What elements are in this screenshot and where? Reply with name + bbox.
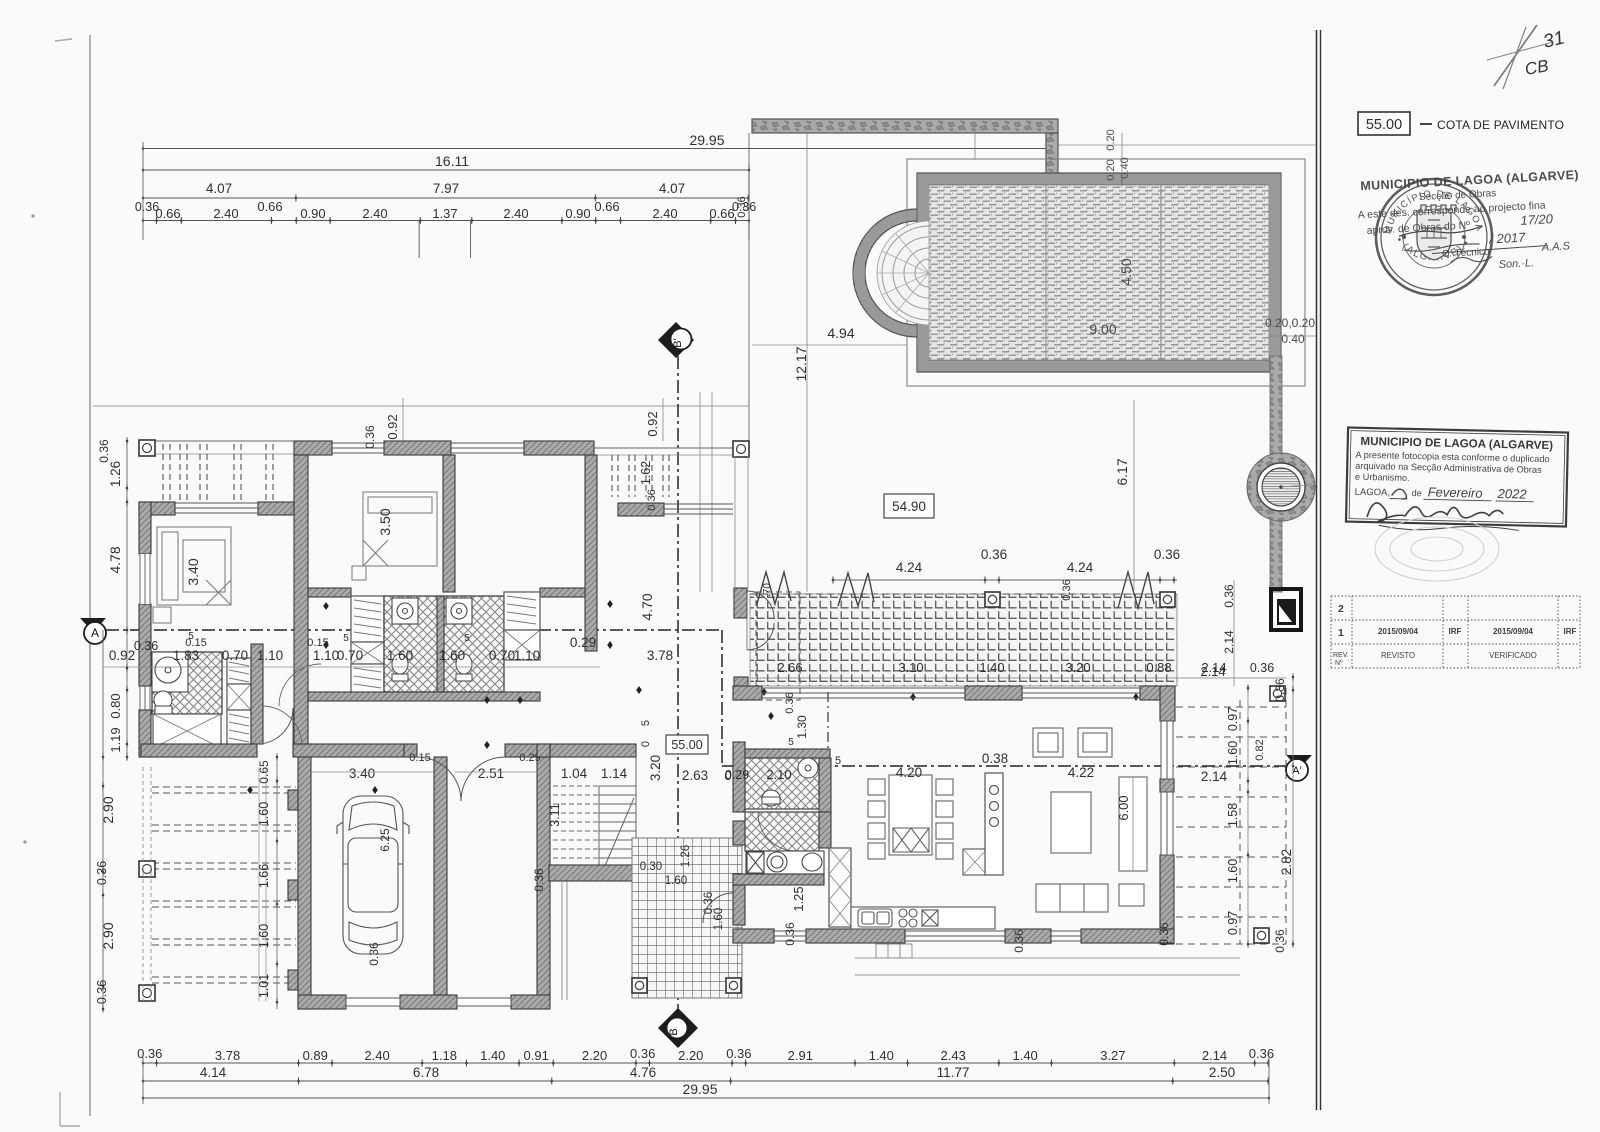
svg-text:2015/09/04: 2015/09/04 bbox=[1378, 627, 1419, 636]
svg-text:0.70: 0.70 bbox=[489, 648, 515, 663]
svg-text:5: 5 bbox=[188, 631, 194, 642]
svg-text:2.40: 2.40 bbox=[364, 1048, 389, 1063]
south patio lines bbox=[855, 957, 1240, 959]
svg-text:4.20: 4.20 bbox=[896, 765, 922, 780]
dim chain top row2: 16.11 bbox=[143, 169, 749, 171]
wall segment (251,644,12x100) bbox=[251, 644, 263, 744]
svg-text:4.94: 4.94 bbox=[827, 325, 854, 341]
svg-text:0.91: 0.91 bbox=[524, 1048, 549, 1063]
sofa bbox=[1036, 884, 1108, 912]
label 55.00 boxed (plan) bbox=[666, 735, 708, 754]
svg-text:3.20: 3.20 bbox=[648, 755, 663, 781]
wall segment (550,744,86x13) bbox=[550, 744, 636, 757]
svg-text:0.36: 0.36 bbox=[1061, 579, 1073, 600]
wall segment (540,588,45x9) bbox=[540, 588, 585, 597]
wall segment (298,757,13x252) bbox=[298, 757, 311, 1009]
svg-text:0.36: 0.36 bbox=[736, 196, 748, 217]
svg-text:1.10: 1.10 bbox=[257, 648, 283, 663]
wall segment (258,502,36x13) bbox=[258, 502, 294, 515]
carport left edge lines bbox=[142, 767, 144, 1001]
label 54.90 (boxed) bbox=[884, 494, 934, 518]
svg-text:VERIFICADO: VERIFICADO bbox=[1489, 651, 1537, 660]
svg-text:1.62: 1.62 bbox=[639, 461, 653, 485]
bottom dim row 2 (totals) bbox=[143, 1080, 1269, 1082]
scan mark top-left bbox=[55, 39, 72, 41]
svg-text:2.90: 2.90 bbox=[100, 796, 116, 823]
svg-text:1.60: 1.60 bbox=[713, 908, 725, 930]
corridor door arc bbox=[257, 708, 293, 744]
svg-text:REVISTO: REVISTO bbox=[1381, 651, 1415, 660]
wardrobe left (bed2) bbox=[351, 596, 384, 698]
wardrobe right (bed3) bbox=[504, 592, 540, 660]
round planter table bbox=[1257, 463, 1305, 511]
north wall window bed2 bbox=[332, 442, 384, 444]
svg-text:2.43: 2.43 bbox=[941, 1048, 966, 1063]
stair treads bbox=[553, 757, 636, 868]
svg-text:5: 5 bbox=[788, 737, 794, 748]
north wall window bed3 bbox=[451, 442, 524, 444]
mid dim line bbox=[103, 666, 600, 668]
svg-text:0.15: 0.15 bbox=[307, 637, 328, 649]
wall segment (585,455,12x196) bbox=[585, 455, 597, 651]
bed1 top window bbox=[175, 502, 258, 504]
wall segment (288,970,10x20) bbox=[288, 970, 298, 990]
site boundary vertical right of pool bbox=[748, 133, 750, 441]
svg-text:5: 5 bbox=[640, 720, 652, 726]
section marker A' (right) bbox=[1286, 755, 1312, 781]
svg-text:2.20: 2.20 bbox=[678, 1048, 703, 1063]
svg-text:0.97: 0.97 bbox=[1226, 911, 1240, 935]
svg-text:4.22: 4.22 bbox=[1068, 765, 1094, 780]
svg-text:COTA DE PAVIMENTO: COTA DE PAVIMENTO bbox=[1437, 118, 1564, 132]
svg-text:0.65: 0.65 bbox=[257, 760, 271, 784]
svg-text:3.40: 3.40 bbox=[349, 766, 375, 781]
svg-text:0.36: 0.36 bbox=[981, 547, 1007, 562]
svg-text:2015/09/04: 2015/09/04 bbox=[1493, 627, 1534, 636]
sheet right border line bbox=[1316, 30, 1318, 1110]
legend: 55.00 cota box bbox=[1358, 112, 1410, 135]
svg-text:3.40: 3.40 bbox=[185, 558, 201, 585]
svg-text:4.07: 4.07 bbox=[206, 181, 232, 196]
svg-text:1.83: 1.83 bbox=[173, 648, 199, 663]
wall segment (308,588,43x9) bbox=[308, 588, 351, 597]
laundry counter bbox=[746, 851, 824, 874]
wall segment (618,503,46x13) bbox=[618, 503, 664, 516]
svg-text:0.90: 0.90 bbox=[565, 206, 590, 221]
svg-text:11.77: 11.77 bbox=[937, 1065, 970, 1080]
porch steps vertical lines bbox=[561, 881, 563, 1000]
svg-text:0.36: 0.36 bbox=[95, 980, 109, 1004]
svg-text:4.76: 4.76 bbox=[630, 1065, 656, 1080]
carport post south bbox=[139, 985, 155, 1001]
pool lane line 2 bbox=[1160, 185, 1162, 360]
svg-text:A.A.S: A.A.S bbox=[1541, 240, 1571, 254]
svg-text:9.00: 9.00 bbox=[1089, 321, 1116, 337]
living south windows bbox=[774, 930, 806, 932]
legend dash bbox=[1420, 123, 1432, 125]
faint circular stamp residue bbox=[1375, 517, 1499, 581]
south patio steps bbox=[876, 944, 912, 958]
svg-text:0.36: 0.36 bbox=[532, 868, 546, 892]
bath2 door arc bbox=[758, 813, 796, 851]
svg-text:0.36: 0.36 bbox=[630, 1046, 655, 1061]
section line A-A horizontal dash-dot (left wing) bbox=[106, 629, 722, 631]
overlapping secretary stamp text bbox=[1356, 168, 1584, 279]
wall segment (965,686,57x14) bbox=[965, 686, 1022, 700]
svg-text:3.78: 3.78 bbox=[647, 648, 673, 663]
pool rim (hatched) bbox=[917, 173, 1281, 372]
svg-text:0.36: 0.36 bbox=[363, 425, 377, 449]
side table bbox=[1119, 884, 1144, 906]
pergola NW corner post bbox=[139, 440, 155, 456]
pool roman steps bbox=[915, 259, 929, 287]
porch post SE bbox=[726, 978, 741, 993]
top boundary line (site) bbox=[93, 405, 749, 407]
bathroom sinks bbox=[392, 598, 472, 624]
wall segment (733,742,12x70) bbox=[733, 742, 745, 812]
living armchairs bbox=[1033, 728, 1112, 757]
svg-text:2.14: 2.14 bbox=[1201, 769, 1228, 784]
svg-text:5: 5 bbox=[464, 633, 470, 644]
svg-text:0.20: 0.20 bbox=[1105, 129, 1117, 150]
svg-text:1.60: 1.60 bbox=[257, 802, 271, 826]
svg-text:/ 2017: / 2017 bbox=[1488, 230, 1527, 247]
svg-text:0.36: 0.36 bbox=[1273, 929, 1287, 953]
terrace post 1 bbox=[985, 592, 1000, 607]
svg-text:54.90: 54.90 bbox=[892, 499, 926, 514]
section line A-A jog vertical bbox=[721, 630, 723, 766]
svg-text:0.36: 0.36 bbox=[646, 489, 658, 510]
section line B-B vertical dash-dot bbox=[677, 356, 679, 1012]
wall segment (733,929,41x14) bbox=[733, 929, 774, 943]
svg-text:0.40: 0.40 bbox=[1281, 332, 1305, 346]
svg-text:3.11: 3.11 bbox=[548, 803, 562, 826]
svg-text:1.60: 1.60 bbox=[257, 924, 271, 948]
round municipal stamp bbox=[1376, 179, 1492, 295]
wall segment (308,692,232x9) bbox=[308, 692, 540, 701]
svg-text:0.36: 0.36 bbox=[1249, 1046, 1274, 1061]
svg-text:0.66: 0.66 bbox=[257, 199, 282, 214]
svg-text:2.40: 2.40 bbox=[362, 206, 387, 221]
garage entry door arcs bbox=[417, 757, 505, 801]
wall segment (806,929,99x14) bbox=[806, 929, 905, 943]
svg-text:1.58: 1.58 bbox=[1226, 803, 1240, 827]
archive copy stamp (rect) bbox=[1346, 428, 1568, 534]
svg-text:4.24: 4.24 bbox=[896, 560, 923, 575]
wall segment (434,757,13x241) bbox=[434, 757, 447, 998]
guest wc floor bbox=[745, 758, 819, 809]
wall segment (443,455,12x137) bbox=[443, 455, 455, 592]
wall segment (139,710,12x47) bbox=[139, 710, 151, 757]
svg-text:1.60: 1.60 bbox=[1226, 859, 1240, 883]
wall segment (819,812,12x36) bbox=[819, 812, 831, 848]
svg-text:2.91: 2.91 bbox=[788, 1048, 813, 1063]
right dim chain rot labels bbox=[1247, 688, 1249, 944]
svg-text:2.51: 2.51 bbox=[478, 766, 504, 781]
svg-text:0.90: 0.90 bbox=[300, 206, 325, 221]
svg-text:1.60: 1.60 bbox=[439, 648, 465, 663]
svg-text:0.20,0.20: 0.20,0.20 bbox=[1265, 316, 1315, 330]
svg-text:4.70: 4.70 bbox=[639, 593, 655, 620]
wall segment (141,744,116x13) bbox=[141, 744, 257, 757]
bed1 furniture bbox=[153, 527, 231, 623]
terrace zigzag mark east bbox=[1118, 572, 1154, 608]
bottom dim row 3 (29.95) bbox=[143, 1097, 1269, 1099]
svg-text:0.20: 0.20 bbox=[1105, 159, 1117, 180]
svg-text:2: 2 bbox=[1338, 603, 1344, 615]
svg-text:2.82: 2.82 bbox=[1279, 849, 1294, 875]
svg-text:1.10: 1.10 bbox=[313, 648, 339, 663]
section marker B' (top) bbox=[658, 322, 694, 358]
svg-text:2.40: 2.40 bbox=[652, 206, 677, 221]
svg-text:3.20: 3.20 bbox=[1065, 660, 1090, 675]
pergola NW strip top edge bbox=[139, 440, 294, 442]
svg-text:1.04: 1.04 bbox=[561, 766, 588, 781]
svg-text:2.10: 2.10 bbox=[766, 767, 791, 782]
kitchen prep table bbox=[963, 849, 987, 875]
wall segment (819,758,12x54) bbox=[819, 758, 831, 812]
section line A-A horizontal dash-dot (right wing) bbox=[722, 765, 1300, 767]
east pergola post SE bbox=[1254, 928, 1269, 943]
terrace post 2 bbox=[1160, 592, 1175, 607]
section marker B (bottom) bbox=[658, 1008, 698, 1048]
wall segment (745,749,85x9) bbox=[745, 749, 830, 758]
bathroom toilets bbox=[392, 654, 472, 681]
wall segment (384,441,67x14) bbox=[384, 441, 451, 455]
svg-text:0.29: 0.29 bbox=[570, 635, 596, 650]
svg-text:0.70: 0.70 bbox=[222, 648, 248, 663]
pool stone wall vertical leg bbox=[1046, 133, 1058, 185]
svg-text:2.40: 2.40 bbox=[503, 206, 528, 221]
svg-text:29.95: 29.95 bbox=[689, 132, 724, 148]
svg-text:0.80: 0.80 bbox=[108, 693, 123, 718]
garage doors (south) bbox=[346, 998, 511, 1006]
wall segment (1081,929,93x14) bbox=[1081, 929, 1174, 943]
svg-text:0.66: 0.66 bbox=[594, 199, 619, 214]
svg-text:17/20: 17/20 bbox=[1520, 211, 1554, 228]
svg-text:0.29: 0.29 bbox=[725, 768, 749, 782]
svg-text:7.97: 7.97 bbox=[433, 181, 459, 196]
hall thin boundary line bbox=[734, 456, 736, 588]
svg-text:0.36: 0.36 bbox=[367, 942, 381, 966]
svg-text:0.66: 0.66 bbox=[155, 206, 180, 221]
bathroom 1+2 tiled floor bbox=[384, 596, 504, 692]
svg-text:1.60: 1.60 bbox=[665, 875, 687, 887]
svg-text:0.38: 0.38 bbox=[982, 751, 1008, 766]
svg-text:1.18: 1.18 bbox=[432, 1048, 457, 1063]
svg-text:6.78: 6.78 bbox=[413, 1065, 439, 1080]
svg-text:LAGOA,: LAGOA, bbox=[1355, 487, 1391, 499]
wall segment (294,455,14x302) bbox=[294, 455, 308, 757]
svg-text:1.40: 1.40 bbox=[1012, 1048, 1037, 1063]
garden walk lines to house bbox=[699, 392, 701, 592]
wall segment (1160,779,14x13) bbox=[1160, 779, 1174, 792]
terrace dim line bbox=[833, 579, 1177, 581]
svg-text:CB: CB bbox=[1523, 56, 1550, 79]
wall segment (511,995,39x14) bbox=[511, 995, 550, 1009]
svg-text:1.14: 1.14 bbox=[601, 766, 628, 781]
svg-text:6.25: 6.25 bbox=[378, 828, 392, 852]
svg-text:1.19: 1.19 bbox=[108, 727, 123, 752]
svg-text:0.92: 0.92 bbox=[385, 414, 400, 439]
svg-text:2.40: 2.40 bbox=[213, 206, 238, 221]
wall segment (1005,929,46x14) bbox=[1005, 929, 1051, 943]
wall segment (404,744,13x13) bbox=[404, 744, 417, 757]
svg-text:55.00: 55.00 bbox=[671, 738, 702, 752]
living north windows bbox=[762, 687, 965, 689]
car bbox=[337, 796, 409, 954]
wall segment (298,995,48x14) bbox=[298, 995, 346, 1009]
svg-text:0.88: 0.88 bbox=[1146, 660, 1171, 675]
wall segment (294,441,38x14) bbox=[294, 441, 332, 455]
scan mark left dot 2 bbox=[23, 840, 26, 843]
terrace zigzag mark west bbox=[757, 572, 791, 604]
svg-text:6.17: 6.17 bbox=[1114, 458, 1130, 485]
wall segment (505,744,44x13) bbox=[505, 744, 549, 757]
kitchen counter bbox=[851, 907, 995, 929]
wall segment (734,588,13x30) bbox=[734, 588, 747, 618]
hall door arc to porch bbox=[703, 893, 733, 923]
svg-text:2.14: 2.14 bbox=[1202, 1048, 1227, 1063]
svg-text:0.40: 0.40 bbox=[1119, 157, 1131, 178]
round planter stone surround bbox=[1247, 453, 1315, 521]
svg-text:6.00: 6.00 bbox=[1116, 795, 1131, 820]
dim terminal verticals top bbox=[142, 142, 144, 240]
svg-text:2.90: 2.90 bbox=[100, 922, 116, 949]
svg-text:IRF: IRF bbox=[1449, 627, 1462, 636]
svg-text:1.40: 1.40 bbox=[979, 660, 1004, 675]
svg-text:1.01: 1.01 bbox=[257, 974, 271, 998]
pool water (brick hatch) bbox=[929, 185, 1269, 360]
svg-text:B′: B′ bbox=[672, 338, 684, 347]
garden path (stone) below pool bbox=[1270, 356, 1282, 592]
svg-text:55.00: 55.00 bbox=[1366, 117, 1402, 133]
svg-text:REV.: REV. bbox=[1333, 652, 1349, 659]
wall segment (139,502,12x52) bbox=[139, 502, 151, 554]
dim chain top row4: small dims bbox=[143, 220, 749, 222]
svg-text:3.78: 3.78 bbox=[215, 1048, 240, 1063]
east pergola post NE bbox=[1270, 686, 1285, 701]
hall double door arcs bbox=[747, 591, 774, 650]
svg-text:3.10: 3.10 bbox=[898, 660, 923, 675]
bottom left terminal bbox=[142, 1057, 144, 1104]
pool apse (arched end) rim bbox=[853, 209, 917, 337]
svg-text:1.26: 1.26 bbox=[680, 845, 692, 867]
svg-text:1.40: 1.40 bbox=[869, 1048, 894, 1063]
svg-text:2.20: 2.20 bbox=[582, 1048, 607, 1063]
corridor door arcs near bath bbox=[262, 706, 302, 746]
svg-text:3.50: 3.50 bbox=[377, 508, 393, 535]
wall segment (1140,686,35x14) bbox=[1140, 686, 1175, 700]
svg-text:0.30: 0.30 bbox=[640, 861, 662, 873]
svg-text:0.36: 0.36 bbox=[726, 1046, 751, 1061]
svg-text:5: 5 bbox=[343, 633, 349, 644]
wall segment (733,821,12x24) bbox=[733, 821, 745, 845]
revision table bbox=[1331, 596, 1580, 668]
svg-text:0.36: 0.36 bbox=[1154, 547, 1180, 562]
svg-text:2.63: 2.63 bbox=[682, 768, 708, 783]
entry porch tiled floor bbox=[632, 838, 742, 998]
carport dim chain (rot) bbox=[276, 757, 278, 1009]
wall segment (1160,855,14x89) bbox=[1160, 855, 1174, 944]
svg-text:0.70: 0.70 bbox=[337, 648, 363, 663]
wall segment (400,995,57x14) bbox=[400, 995, 457, 1009]
svg-text:1.60: 1.60 bbox=[387, 648, 413, 663]
svg-text:29.95: 29.95 bbox=[682, 1081, 717, 1097]
svg-text:de: de bbox=[1412, 488, 1422, 498]
svg-text:0.36: 0.36 bbox=[95, 861, 109, 885]
kitchen island bbox=[985, 773, 1003, 875]
pergola NW beams (dashed) bbox=[162, 444, 164, 502]
bed2 furniture bbox=[352, 492, 437, 580]
wall segment (288,790,10x20) bbox=[288, 790, 298, 810]
ensuite shower (X box) bbox=[153, 714, 221, 748]
covered porch dashed (NE of hall) bbox=[756, 592, 800, 700]
west wall window bbox=[139, 686, 141, 710]
east pergola dashed border bbox=[1239, 700, 1241, 944]
svg-text:4.50: 4.50 bbox=[1118, 258, 1134, 285]
sideboard bbox=[1119, 777, 1147, 871]
pool deck outline bbox=[907, 159, 1305, 386]
left vertical dim chain lower bbox=[102, 630, 104, 1009]
svg-text:1.60: 1.60 bbox=[1226, 741, 1240, 765]
pergola NE corner post bbox=[733, 441, 749, 457]
garage inner dim line bbox=[311, 771, 434, 773]
ensuite sink bbox=[152, 652, 188, 692]
svg-text:2.14: 2.14 bbox=[1200, 664, 1225, 679]
svg-text:4.24: 4.24 bbox=[1067, 560, 1094, 575]
wall segment (139,604,12x82) bbox=[139, 604, 151, 686]
svg-text:.70: .70 bbox=[762, 583, 773, 597]
ensuite closet column bbox=[227, 658, 251, 748]
svg-text:16.11: 16.11 bbox=[435, 153, 469, 169]
svg-text:0.36: 0.36 bbox=[1250, 661, 1274, 675]
carport post mid bbox=[139, 861, 155, 877]
dim chain top row1: 29.95 bbox=[143, 148, 1048, 150]
svg-text:Nº: Nº bbox=[1335, 660, 1343, 667]
svg-text:Son.·L.: Son.·L. bbox=[1498, 257, 1534, 271]
bath2 floor bbox=[745, 812, 819, 851]
living east windows bbox=[1161, 721, 1173, 855]
wall segment (139,502,36x13) bbox=[139, 502, 175, 515]
svg-text:1.26: 1.26 bbox=[108, 461, 123, 487]
dim 6.17 vertical bbox=[1133, 400, 1135, 590]
scan mark bottom-left corner bbox=[59, 1092, 61, 1126]
barbecue / detail symbol bbox=[1271, 589, 1301, 630]
svg-text:0.92: 0.92 bbox=[645, 411, 660, 436]
far right chain bbox=[1292, 677, 1294, 944]
wall segment (537,744,13x13) bbox=[537, 744, 550, 757]
ensuite bathroom (SW) tiled floor bbox=[152, 652, 222, 714]
wall segment (549,865,87x16) bbox=[549, 865, 636, 881]
svg-text:Fevereiro: Fevereiro bbox=[1428, 484, 1483, 500]
svg-text:2022: 2022 bbox=[1496, 486, 1527, 502]
wall segment (437,596,7x96) bbox=[437, 596, 444, 692]
wall segment (733,686,29x14) bbox=[733, 686, 762, 700]
pool stone boundary wall top bbox=[752, 119, 1058, 133]
auxiliary dash-dot axis in kitchen bbox=[827, 692, 829, 768]
scan mark left dot 1 bbox=[31, 214, 34, 217]
wall segment (733,885,12x40) bbox=[733, 885, 745, 925]
svg-text:0: 0 bbox=[640, 741, 652, 747]
pencil strokes bbox=[1494, 25, 1537, 86]
dining table bbox=[868, 775, 953, 859]
svg-text:0.82: 0.82 bbox=[1254, 739, 1266, 760]
svg-text:0.15: 0.15 bbox=[409, 752, 430, 764]
svg-text:1.25: 1.25 bbox=[791, 886, 806, 911]
svg-text:0.36: 0.36 bbox=[783, 922, 797, 946]
svg-text:e Urbanismo.: e Urbanismo. bbox=[1355, 472, 1410, 483]
